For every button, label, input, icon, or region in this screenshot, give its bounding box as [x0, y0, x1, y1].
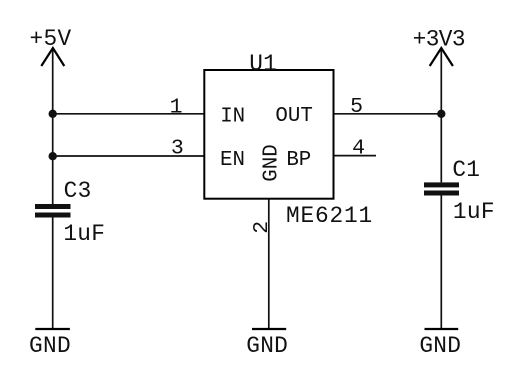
svg-text:U1: U1: [249, 51, 277, 77]
svg-text:+5V: +5V: [30, 26, 72, 52]
svg-text:1uF: 1uF: [63, 221, 105, 247]
svg-text:+3V3: +3V3: [413, 26, 465, 52]
svg-text:2: 2: [250, 221, 274, 234]
svg-text:GND: GND: [419, 333, 461, 359]
svg-text:1uF: 1uF: [453, 199, 495, 225]
svg-text:3: 3: [171, 137, 184, 161]
svg-text:5: 5: [350, 95, 363, 119]
svg-text:GND: GND: [29, 333, 71, 359]
svg-text:OUT: OUT: [275, 105, 312, 128]
svg-text:ME6211: ME6211: [286, 203, 373, 229]
svg-text:GND: GND: [246, 333, 288, 359]
svg-text:1: 1: [170, 95, 183, 119]
svg-text:IN: IN: [220, 105, 245, 128]
svg-text:C3: C3: [64, 178, 92, 204]
svg-text:GND: GND: [260, 144, 283, 181]
svg-text:4: 4: [352, 136, 365, 160]
svg-text:BP: BP: [286, 149, 311, 172]
svg-text:EN: EN: [220, 149, 245, 172]
svg-text:C1: C1: [452, 157, 480, 183]
